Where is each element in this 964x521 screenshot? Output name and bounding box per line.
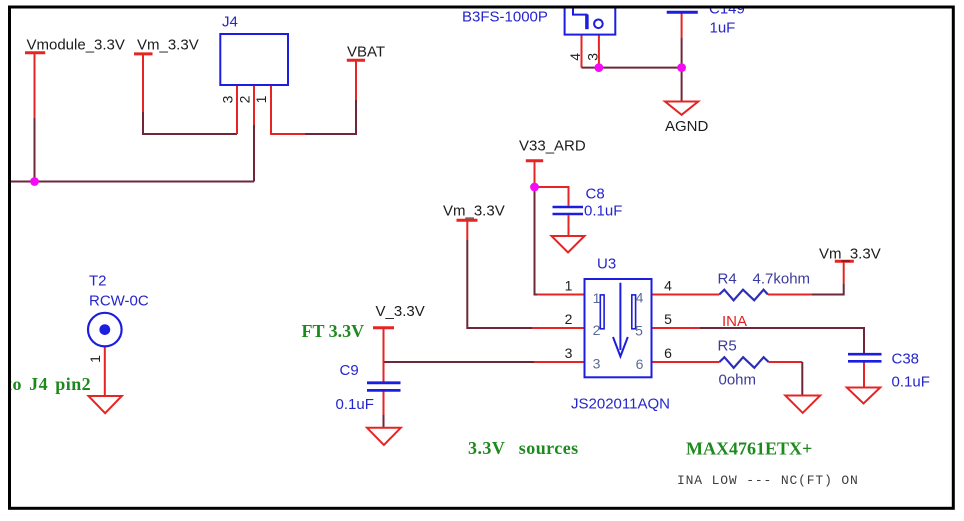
svg-text:V33_ARD: V33_ARD — [519, 138, 586, 155]
power bar Vmodule_3.3V — [25, 51, 45, 54]
capacitor C149 plate — [667, 11, 698, 14]
power bar VBAT — [347, 59, 365, 62]
wire AGND net horizontal — [582, 67, 682, 69]
wire C38 to ground — [863, 362, 865, 388]
svg-text:1uF: 1uF — [710, 20, 736, 37]
wire U3 pin5 INA net — [652, 328, 865, 354]
wire R4 to Vm_3.3V — [768, 262, 844, 295]
svg-text:Vm_3.3V: Vm_3.3V — [819, 246, 881, 263]
wire V33_ARD branch to C8 — [535, 187, 569, 236]
U3 arrow — [613, 283, 628, 357]
svg-text:4.7kohm: 4.7kohm — [753, 271, 811, 288]
wire VBAT to J4 pin1 — [271, 61, 356, 135]
ground C9 triangle — [367, 428, 401, 445]
IC U3 body — [585, 279, 652, 377]
svg-text:to J4 pin2: to J4 pin2 — [6, 374, 91, 394]
svg-text:5: 5 — [635, 323, 643, 339]
wire J4 pin2 vertical — [253, 85, 255, 182]
svg-text:1: 1 — [253, 95, 269, 103]
svg-text:U3: U3 — [597, 256, 616, 273]
wire B3FS pin4 stub — [581, 35, 583, 68]
svg-text:C8: C8 — [586, 186, 605, 203]
capacitor C38 plates — [848, 354, 882, 361]
wire V33_ARD to U3 pin1 — [535, 187, 585, 295]
capacitor C9 plates — [367, 383, 401, 391]
svg-text:4: 4 — [664, 278, 672, 294]
svg-text:2: 2 — [565, 311, 573, 327]
power bar Vm_3.3V top left — [134, 52, 153, 55]
wire Vm_3.3V mid to U3 pin2 — [467, 221, 584, 329]
svg-text:C38: C38 — [892, 351, 920, 368]
svg-text:B3FS-1000P: B3FS-1000P — [462, 9, 548, 26]
svg-text:C9: C9 — [340, 362, 359, 379]
svg-text:Vm_3.3V: Vm_3.3V — [443, 203, 505, 220]
wire C149 to AGND — [681, 14, 683, 102]
svg-text:2: 2 — [593, 322, 601, 338]
junction dot B3FS pin3 — [595, 63, 604, 72]
ground R5 triangle — [785, 396, 820, 413]
svg-text:0.1uF: 0.1uF — [584, 203, 622, 220]
svg-text:3: 3 — [220, 95, 236, 103]
svg-text:3: 3 — [593, 356, 601, 372]
svg-text:T2: T2 — [89, 273, 107, 290]
ground C38 triangle — [847, 388, 880, 404]
wire U3 pin6 to R5 — [652, 361, 720, 363]
svg-text:0.1uF: 0.1uF — [892, 374, 930, 391]
junction dot AGND net — [677, 63, 686, 72]
ground C8 triangle — [552, 236, 585, 253]
svg-text:AGND: AGND — [665, 118, 709, 135]
svg-text:4: 4 — [636, 290, 644, 306]
svg-text:Vmodule_3.3V: Vmodule_3.3V — [27, 37, 125, 54]
wire V33_ARD stub — [534, 161, 536, 187]
U3 slider right — [632, 295, 636, 329]
svg-text:INA LOW --- NC(FT) ON: INA LOW --- NC(FT) ON — [677, 473, 859, 488]
svg-text:0ohm: 0ohm — [719, 372, 757, 389]
wire C9 vertical — [383, 362, 385, 428]
wire T2 to ground — [104, 347, 106, 396]
wire B3FS pin3 stub — [598, 35, 600, 68]
power bar Vm_3.3V right — [835, 260, 854, 263]
svg-text:JS202011AQN: JS202011AQN — [571, 396, 670, 413]
svg-text:MAX4761ETX+: MAX4761ETX+ — [686, 439, 812, 459]
svg-text:6: 6 — [664, 345, 672, 361]
svg-text:VBAT: VBAT — [347, 44, 385, 61]
wire Vm_3.3V to J4 pin3 — [143, 55, 237, 135]
svg-text:Vm_3.3V: Vm_3.3V — [137, 37, 199, 54]
svg-text:FT 3.3V: FT 3.3V — [302, 321, 365, 341]
ground T2 triangle — [89, 396, 122, 413]
resistor R5 zigzag — [719, 357, 768, 368]
wire V_3.3V to U3 pin3 — [384, 361, 585, 363]
svg-text:3.3Vsources: 3.3Vsources — [468, 438, 579, 458]
svg-text:R5: R5 — [718, 338, 737, 355]
wire Vmodule_3.3V vertical stub — [34, 53, 36, 182]
svg-text:J4: J4 — [222, 14, 238, 31]
svg-text:1: 1 — [565, 278, 573, 294]
power bar V_3.3V — [373, 326, 394, 329]
power bar Vm_3.3V middle — [457, 219, 478, 222]
svg-text:2: 2 — [237, 95, 253, 103]
wire main horizontal net to J4 pin2 — [10, 181, 255, 183]
capacitor C8 plates — [553, 207, 584, 214]
svg-text:3: 3 — [565, 345, 573, 361]
ground AGND triangle — [665, 102, 698, 115]
wire U3 pin4 to R4 — [652, 294, 720, 296]
svg-text:RCW-0C: RCW-0C — [89, 293, 149, 310]
svg-text:5: 5 — [664, 311, 672, 327]
svg-text:INA: INA — [722, 313, 747, 330]
svg-text:V_3.3V: V_3.3V — [376, 303, 425, 320]
power bar V33_ARD — [526, 159, 543, 162]
testpoint T2 circle — [88, 313, 122, 347]
svg-text:4: 4 — [567, 53, 583, 61]
junction dot V33_ARD — [530, 183, 539, 192]
svg-text:0.1uF: 0.1uF — [336, 396, 374, 413]
svg-text:1: 1 — [87, 355, 103, 363]
junction dot main — [30, 177, 39, 186]
U3 slider left — [600, 295, 604, 329]
connector J4 body — [220, 34, 288, 85]
svg-text:R4: R4 — [718, 271, 737, 288]
svg-text:3: 3 — [584, 53, 600, 61]
mask left — [0, 0, 8, 521]
mask top — [0, 0, 964, 6]
svg-text:6: 6 — [636, 356, 644, 372]
svg-text:1: 1 — [593, 290, 601, 306]
resistor R4 zigzag — [719, 290, 768, 301]
wire V_3.3V stub — [383, 328, 385, 362]
switch B3FS-1000P body — [565, 2, 616, 35]
wire R5 to ground — [769, 362, 803, 396]
